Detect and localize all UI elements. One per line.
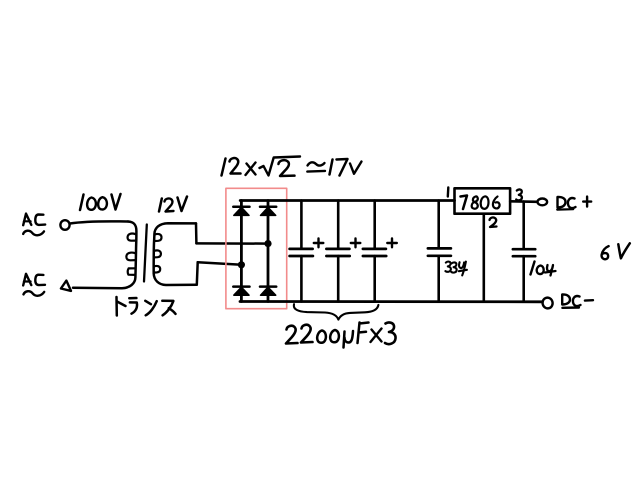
junction dot (left column, AC in) [238, 261, 245, 268]
diode D4 (bottom-right) [260, 287, 276, 296]
terminal DC+ (oval) [538, 199, 548, 206]
transformer T1 primary winding [73, 222, 136, 289]
diode D2 (top-right) [260, 207, 276, 216]
pin 1 label [447, 188, 450, 197]
output label 6V [602, 243, 630, 259]
capacitor C1 2200uF [290, 201, 324, 302]
capacitor C3 2200uF [363, 201, 397, 302]
wire secondary bottom to bridge [198, 262, 242, 265]
capacitor C4 33µF [428, 201, 451, 302]
net label DC+ [557, 197, 591, 210]
transformer T1 secondary winding [154, 223, 198, 285]
label 12V [159, 197, 187, 212]
junction dot (right column, AC in) [264, 240, 271, 247]
wire 7806 pin3 to DC+ terminal [510, 200, 537, 203]
value label 2200µF×3 [286, 322, 396, 347]
net label DC- [562, 294, 593, 307]
wire AC top to transformer primary [70, 221, 128, 223]
pin 3 label [516, 189, 522, 200]
brace under C1-C3 [294, 304, 379, 319]
transformer T1 core [144, 225, 147, 282]
terminal DC- (oval) [541, 296, 553, 309]
diode D3 (bottom-left) [233, 287, 249, 296]
regulator U1 7806 [455, 188, 511, 213]
terminal AC bottom (arrow) [61, 281, 71, 291]
annotation 12x√2≃17V [222, 157, 362, 177]
capacitor C2 2200uF [326, 201, 360, 302]
node AC (top) label [23, 214, 45, 236]
bridge rectifier highlight box (red) [226, 188, 287, 308]
node AC (bottom) label [23, 274, 45, 296]
wire secondary top to bridge [196, 242, 268, 245]
label 100V [80, 194, 121, 210]
wire bottom rail [240, 300, 543, 303]
label トランス (transformer) [117, 297, 176, 316]
capacitor C5 10µF [513, 202, 535, 302]
terminal AC top (circle) [60, 220, 69, 230]
value label 10µ [531, 262, 556, 276]
wire top rail (+17V rail) [240, 199, 454, 202]
value label 33µ [445, 262, 467, 276]
bridge left column wire [240, 201, 243, 302]
wire pin2 down to bottom rail [482, 214, 485, 302]
diode D1 (top-left) [233, 207, 249, 216]
pin 2 label [490, 217, 497, 227]
bridge right column wire [267, 201, 270, 302]
